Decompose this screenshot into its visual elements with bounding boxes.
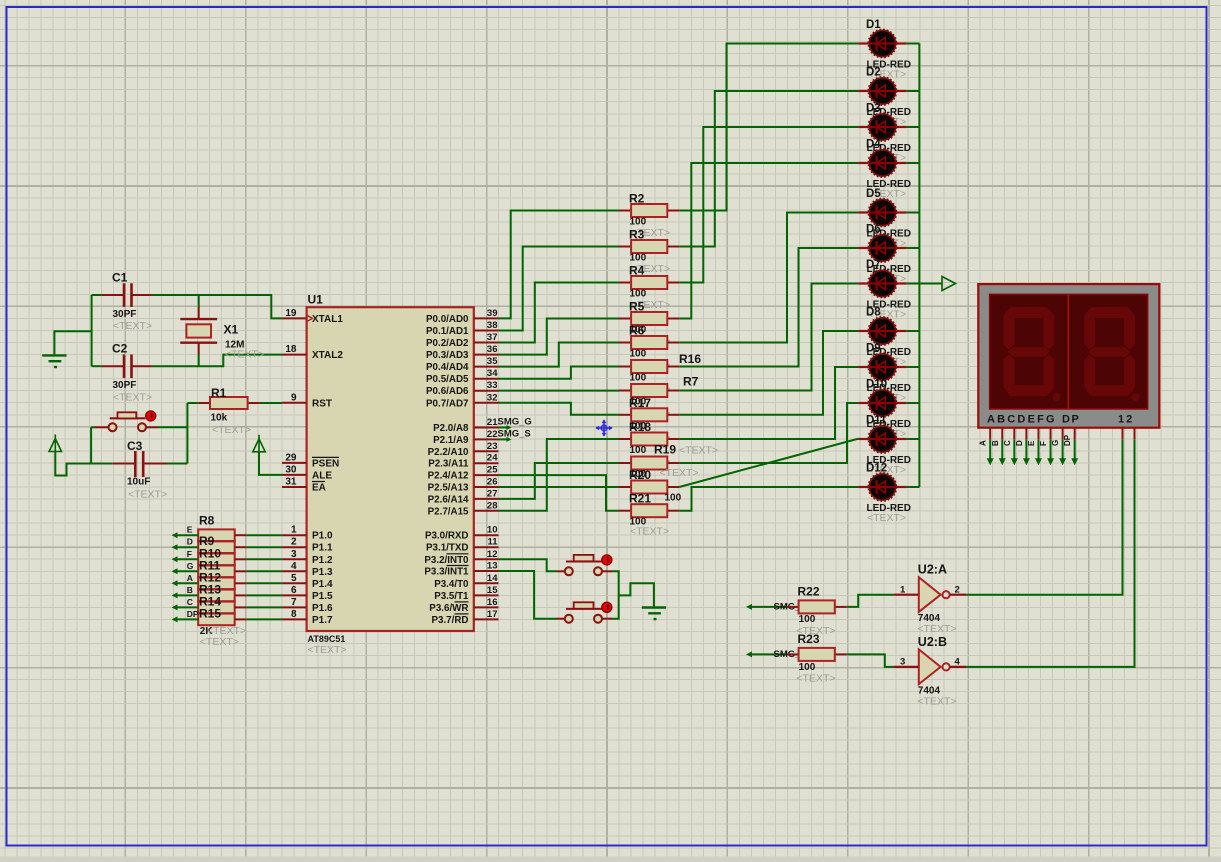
- wire R16 to D6: [679, 248, 858, 367]
- svg-text:DP: DP: [1062, 414, 1080, 426]
- U1 pin 14 P3.4/T0: [474, 582, 499, 584]
- wire P0.7 to R17: [499, 403, 620, 415]
- svg-text:D8: D8: [866, 307, 881, 319]
- svg-text:D12: D12: [866, 463, 887, 475]
- 7-segment pin 1: [1122, 428, 1124, 440]
- terminal arrow SMG_S: [746, 651, 752, 657]
- 7-segment digit 1: [1003, 310, 1014, 349]
- U1 pin 15 P3.5/T1: [474, 594, 499, 596]
- terminal arrow on D7 row: [919, 283, 942, 285]
- svg-text:3: 3: [291, 549, 297, 560]
- svg-text:U1: U1: [308, 293, 324, 307]
- svg-text:3: 3: [900, 657, 905, 668]
- svg-text:2: 2: [291, 537, 297, 548]
- svg-text:R4: R4: [629, 264, 645, 278]
- svg-text:P3.4/T0: P3.4/T0: [434, 579, 469, 590]
- svg-text:P1.6: P1.6: [312, 603, 333, 614]
- wire D8 to bus: [907, 330, 920, 332]
- wire crystal bottom stub: [198, 354, 200, 366]
- svg-text:31: 31: [285, 477, 297, 488]
- U1 pin 32 P0.7/AD7: [474, 402, 499, 404]
- wire P0.0 to R2: [499, 211, 620, 319]
- wire P3.2 to button2a: [499, 559, 558, 571]
- svg-text:<TEXT>: <TEXT>: [917, 696, 956, 708]
- svg-text:6: 6: [291, 585, 297, 596]
- wire U2:B output to display pin 2: [966, 440, 1134, 667]
- svg-text:23: 23: [487, 441, 498, 452]
- wire R14 to P1.6: [235, 606, 247, 608]
- 7-segment pin A: [989, 428, 991, 440]
- svg-text:D: D: [1015, 440, 1024, 446]
- svg-text:DP: DP: [187, 609, 199, 619]
- 7-segment pin E: [1037, 428, 1039, 440]
- svg-text:A: A: [979, 440, 988, 446]
- U1 pin 29 PSEN: [282, 462, 307, 464]
- svg-text:D9: D9: [866, 343, 881, 355]
- wire P0.6 to R7: [499, 390, 620, 392]
- svg-text:100: 100: [630, 289, 647, 300]
- power terminal (left): [54, 435, 56, 452]
- 7-segment pin D: [1025, 428, 1027, 440]
- svg-text:D3: D3: [866, 103, 881, 115]
- wire D2 to bus: [907, 90, 920, 92]
- svg-text:P0.5/AD5: P0.5/AD5: [426, 374, 469, 385]
- svg-text:4: 4: [291, 561, 297, 572]
- U1 pin 13 P3.3/INT1: [474, 570, 499, 572]
- svg-text:R5: R5: [629, 300, 645, 314]
- capacitor C1: [101, 294, 124, 296]
- svg-text:100: 100: [630, 373, 647, 384]
- U1 pin 5 P1.4: [282, 582, 307, 584]
- svg-text:30PF: 30PF: [113, 309, 137, 320]
- svg-text:P2.5/A13: P2.5/A13: [428, 483, 469, 494]
- svg-text:15: 15: [487, 585, 498, 596]
- svg-text:<TEXT>: <TEXT>: [867, 512, 906, 524]
- svg-text:R19: R19: [654, 443, 676, 457]
- svg-text:10: 10: [487, 525, 498, 536]
- svg-text:R6: R6: [629, 324, 645, 338]
- svg-text:29: 29: [285, 452, 297, 463]
- svg-text:SMG_G: SMG_G: [498, 417, 532, 428]
- U1 pin 39 P0.0/AD0: [474, 317, 499, 319]
- svg-text:R22: R22: [798, 585, 820, 599]
- svg-text:R18: R18: [629, 420, 651, 434]
- svg-text:R3: R3: [629, 228, 645, 242]
- svg-text:P2.3/A11: P2.3/A11: [428, 459, 469, 470]
- LED D11: [858, 425, 907, 453]
- U1 pin 31 EA: [282, 486, 307, 488]
- svg-text:100: 100: [630, 349, 647, 360]
- svg-text:P2.6/A14: P2.6/A14: [428, 494, 469, 505]
- 7-segment digit 2: [1084, 310, 1095, 349]
- svg-text:PSEN: PSEN: [312, 458, 339, 469]
- svg-text:P3.6/WR: P3.6/WR: [429, 603, 468, 614]
- svg-text:P3.5/T1: P3.5/T1: [434, 591, 469, 602]
- U1 pin 1 P1.0: [282, 534, 307, 536]
- wire U2:A output to display pin 1: [966, 440, 1122, 595]
- svg-text:34: 34: [487, 368, 498, 379]
- net label SMG_S on pin 22: [499, 438, 509, 440]
- svg-text:F: F: [1039, 441, 1048, 446]
- svg-text:22: 22: [487, 429, 498, 440]
- inverter U2:A 7404: [919, 577, 941, 612]
- LED D4: [858, 149, 907, 177]
- svg-text:12: 12: [1118, 414, 1134, 426]
- wire DP terminal to R15: [172, 616, 178, 622]
- IC U1 AT89C51 body: [307, 307, 474, 631]
- svg-text:C1: C1: [112, 271, 128, 285]
- svg-text:P2.1/A9: P2.1/A9: [433, 435, 469, 446]
- wire power terminal to ALE: [259, 452, 282, 475]
- wire B terminal to R13: [172, 592, 178, 598]
- U1 pin 16 P3.6/WR: [474, 606, 499, 608]
- U1 pin 9 RST: [282, 402, 307, 404]
- resistor R20: [619, 486, 631, 488]
- wire R9 to P1.1: [235, 546, 247, 548]
- 7-segment pin B: [1001, 428, 1003, 440]
- svg-text:<TEXT>: <TEXT>: [113, 320, 152, 332]
- svg-text:D7: D7: [866, 259, 881, 271]
- LED D1: [858, 30, 907, 58]
- U1 pin 4 P1.3: [282, 570, 307, 572]
- wire G terminal to R11: [172, 568, 178, 574]
- svg-text:C: C: [1003, 440, 1012, 446]
- wire P0.2 to R4: [499, 283, 620, 343]
- svg-text:100: 100: [665, 493, 682, 504]
- svg-text:A: A: [187, 573, 193, 583]
- svg-text:C3: C3: [127, 439, 143, 453]
- wire R3 to D2: [679, 91, 858, 247]
- svg-text:P1.2: P1.2: [312, 555, 333, 566]
- svg-text:25: 25: [487, 465, 498, 476]
- svg-text:16: 16: [487, 597, 498, 608]
- svg-text:XTAL1: XTAL1: [312, 314, 343, 325]
- capacitor C3: [113, 463, 136, 465]
- U1 pin 19 XTAL1: [282, 317, 307, 319]
- svg-text:13: 13: [487, 561, 498, 572]
- svg-text:<TEXT>: <TEXT>: [200, 636, 239, 648]
- svg-text:P0.6/AD6: P0.6/AD6: [426, 386, 469, 397]
- wire button1 left: [91, 426, 95, 428]
- resistor R7: [619, 390, 631, 392]
- U1 pin 38 P0.1/AD1: [474, 330, 499, 332]
- svg-text:E: E: [1027, 440, 1036, 446]
- wire P2.5 to R20: [499, 486, 620, 488]
- net label SMG_G on pin 21: [499, 427, 509, 429]
- wire R23 to U2:B input: [847, 654, 894, 667]
- svg-text:DP: DP: [1063, 434, 1072, 446]
- wire R17 to D8: [679, 331, 858, 415]
- wire R8 to P1.0: [235, 534, 247, 536]
- bottom window band: [0, 857, 1221, 862]
- LED D8: [858, 317, 907, 345]
- svg-text:<TEXT>: <TEXT>: [917, 623, 956, 635]
- U1 pin 7 P1.6: [282, 606, 307, 608]
- wire D7 to bus: [907, 283, 920, 285]
- svg-text:<TEXT>: <TEXT>: [225, 349, 264, 361]
- svg-text:<TEXT>: <TEXT>: [128, 489, 167, 501]
- svg-text:R15: R15: [199, 606, 221, 620]
- svg-text:39: 39: [487, 308, 498, 319]
- svg-text:P3.3/INT1: P3.3/INT1: [424, 567, 469, 578]
- resistor R4: [619, 282, 631, 284]
- svg-text:ABCDEFG: ABCDEFG: [987, 414, 1057, 426]
- resistor R16: [619, 366, 631, 368]
- 7-segment digit 2 decimal point: [1131, 393, 1139, 401]
- svg-text:D: D: [187, 537, 193, 547]
- svg-text:<TEXT>: <TEXT>: [660, 467, 699, 479]
- svg-text:21: 21: [487, 417, 498, 428]
- svg-text:<TEXT>: <TEXT>: [630, 526, 669, 538]
- inverter U2:B 7404: [919, 649, 941, 684]
- 7-segment digit 1 decimal point: [1052, 393, 1060, 401]
- wire R1 to RST pin: [260, 402, 282, 404]
- svg-text:X1: X1: [224, 323, 239, 337]
- U1 pin 26 P2.5/A13: [474, 486, 499, 488]
- wire D3 to bus: [907, 126, 920, 128]
- wire R10 to P1.2: [235, 558, 247, 560]
- svg-text:P1.5: P1.5: [312, 591, 333, 602]
- svg-text:100: 100: [799, 614, 816, 625]
- terminal arrow SMG_G: [746, 604, 752, 610]
- resistor R1: [199, 402, 210, 404]
- wire D12 to bus: [907, 486, 920, 488]
- svg-text:P3.0/RXD: P3.0/RXD: [425, 531, 469, 542]
- svg-text:G: G: [1051, 440, 1060, 446]
- svg-text:<TEXT>: <TEXT>: [113, 392, 152, 404]
- svg-text:R17: R17: [629, 396, 651, 410]
- svg-text:1: 1: [900, 585, 906, 596]
- svg-text:P2.2/A10: P2.2/A10: [428, 447, 469, 458]
- resistor R18: [619, 438, 631, 440]
- resistor R13 (network): [198, 590, 235, 602]
- resistor R12 (network): [198, 578, 235, 590]
- wire P0.4 to R6: [499, 343, 620, 367]
- wire P0.5 to R16: [499, 367, 620, 379]
- wire P2.7 to R18: [499, 439, 620, 511]
- wire D5 to bus: [907, 212, 920, 214]
- svg-text:D5: D5: [866, 188, 881, 200]
- LED D12: [858, 473, 907, 501]
- svg-text:P3.2/INT0: P3.2/INT0: [424, 555, 469, 566]
- svg-text:18: 18: [285, 344, 297, 355]
- svg-text:XTAL2: XTAL2: [312, 350, 343, 361]
- resistor R6: [619, 342, 631, 344]
- svg-text:10uF: 10uF: [127, 477, 150, 488]
- wire crystal top stub: [198, 295, 200, 307]
- svg-text:11: 11: [487, 537, 498, 548]
- svg-text:B: B: [991, 440, 1000, 446]
- U1 pin 36 P0.3/AD3: [474, 354, 499, 356]
- svg-text:R8: R8: [199, 514, 215, 528]
- svg-text:C2: C2: [112, 342, 128, 356]
- svg-text:SMG_S: SMG_S: [498, 429, 531, 440]
- 7-segment display panel: [990, 294, 1148, 409]
- wire R6 to D5: [679, 213, 858, 343]
- svg-text:P2.7/A15: P2.7/A15: [428, 506, 469, 517]
- 7-segment digit divider: [1067, 294, 1069, 409]
- LED D7: [858, 270, 907, 298]
- wire P3.3 to button2b: [499, 571, 558, 619]
- svg-text:30: 30: [285, 464, 297, 475]
- svg-text:19: 19: [285, 308, 297, 319]
- resistor R5: [619, 318, 631, 320]
- 7-segment display body: [978, 284, 1159, 428]
- pushbutton (reset): [96, 426, 109, 428]
- capacitor C2: [101, 365, 124, 367]
- svg-text:EA: EA: [312, 483, 326, 494]
- 7-segment pin 2: [1134, 428, 1136, 440]
- svg-text:17: 17: [487, 609, 498, 620]
- wire D4 to bus: [907, 162, 920, 164]
- wire R11 to P1.3: [235, 570, 247, 572]
- svg-text:27: 27: [487, 488, 498, 499]
- svg-text:P1.0: P1.0: [312, 531, 333, 542]
- wire R1 left vertical: [187, 402, 198, 404]
- svg-text:P0.2/AD2: P0.2/AD2: [426, 338, 469, 349]
- wire E terminal to R8: [172, 532, 178, 538]
- LED D10: [858, 389, 907, 417]
- U1 pin 22 P2.1/A9: [474, 438, 499, 440]
- wire R19 to D10: [679, 403, 858, 463]
- svg-text:37: 37: [487, 332, 498, 343]
- svg-text:8: 8: [291, 609, 297, 620]
- ground (buttons): [642, 606, 666, 608]
- svg-text:4: 4: [955, 657, 961, 668]
- svg-text:D10: D10: [866, 379, 887, 391]
- svg-text:<TEXT>: <TEXT>: [308, 644, 347, 656]
- svg-text:D2: D2: [866, 67, 881, 79]
- svg-text:<TEXT>: <TEXT>: [679, 445, 718, 457]
- resistor R17: [619, 414, 631, 416]
- svg-text:10k: 10k: [211, 413, 228, 424]
- svg-text:5: 5: [291, 573, 297, 584]
- resistor R23: [787, 653, 799, 655]
- svg-text:E: E: [187, 525, 193, 535]
- svg-text:32: 32: [487, 392, 498, 403]
- svg-text:D11: D11: [866, 415, 887, 427]
- svg-text:D4: D4: [866, 139, 881, 151]
- svg-text:C: C: [187, 597, 193, 607]
- wire R5 to D4: [679, 163, 858, 319]
- U1 pin 2 P1.1: [282, 546, 307, 548]
- svg-text:R23: R23: [798, 632, 820, 646]
- svg-text:P3.7/RD: P3.7/RD: [431, 615, 468, 626]
- svg-text:P0.4/AD4: P0.4/AD4: [426, 362, 469, 373]
- U1 pin 33 P0.6/AD6: [474, 390, 499, 392]
- wire R15 to P1.7: [235, 618, 247, 620]
- U1 pin 23 P2.2/A10: [474, 450, 499, 452]
- wire F terminal to R10: [172, 556, 178, 562]
- resistor R22: [787, 606, 799, 608]
- U1 pin 6 P1.5: [282, 594, 307, 596]
- svg-text:P1.4: P1.4: [312, 579, 333, 590]
- U1 pin 37 P0.2/AD2: [474, 342, 499, 344]
- resistor R3: [619, 246, 631, 248]
- svg-text:100: 100: [630, 445, 647, 456]
- svg-text:P0.3/AD3: P0.3/AD3: [426, 350, 469, 361]
- svg-text:B: B: [187, 585, 193, 595]
- wire R7 to D7: [679, 284, 858, 391]
- U1 pin 28 P2.7/A15: [474, 510, 499, 512]
- resistor R2: [619, 210, 631, 212]
- wire C3 right: [167, 463, 188, 465]
- svg-text:AT89C51: AT89C51: [308, 634, 346, 644]
- svg-text:36: 36: [487, 344, 498, 355]
- wire D11 to bus: [907, 438, 920, 440]
- U1 pin 3 P1.2: [282, 558, 307, 560]
- svg-text:RST: RST: [312, 398, 332, 409]
- wire P2.6 to R19: [499, 463, 620, 499]
- wire C2 bottom rail to XTAL2: [92, 365, 102, 367]
- U1 pin 8 P1.7: [282, 618, 307, 620]
- svg-text:R1: R1: [211, 386, 227, 400]
- wire left vertical C1-C2: [91, 295, 93, 366]
- pushbutton (P3.2): [557, 570, 564, 572]
- svg-text:<TEXT>: <TEXT>: [212, 424, 251, 436]
- svg-text:9: 9: [291, 392, 297, 403]
- resistor R21: [619, 510, 631, 512]
- U1 pin 11 P3.1/TXD: [474, 546, 499, 548]
- pushbutton (P3.3): [557, 618, 564, 620]
- svg-text:28: 28: [487, 500, 498, 511]
- svg-text:30PF: 30PF: [113, 380, 137, 391]
- wire D9 to bus: [907, 366, 920, 368]
- wire P0.3 to R5: [499, 319, 620, 355]
- 7-segment pin G: [1062, 428, 1064, 440]
- wire D6 to bus: [907, 247, 920, 249]
- 7-segment pin DP: [1074, 428, 1076, 440]
- wire R20 to D11 (diagonal): [679, 439, 858, 487]
- svg-text:<TEXT>: <TEXT>: [796, 673, 835, 685]
- svg-text:R21: R21: [629, 492, 651, 506]
- svg-text:R20: R20: [629, 468, 651, 482]
- svg-text:ALE: ALE: [312, 470, 332, 481]
- wire A terminal to R12: [172, 580, 178, 586]
- svg-text:G: G: [187, 561, 194, 571]
- svg-text:38: 38: [487, 320, 498, 331]
- LED D2: [858, 77, 907, 105]
- svg-text:24: 24: [487, 453, 498, 464]
- resistor R8 (network): [198, 529, 235, 541]
- svg-text:1: 1: [291, 525, 297, 536]
- LED D3: [858, 113, 907, 141]
- origin marker (blue crosshair): [596, 420, 612, 436]
- U1 pin 12 P3.2/INT0: [474, 558, 499, 560]
- wire C terminal to R14: [172, 604, 178, 610]
- wire R18 to D9: [679, 367, 858, 439]
- wire button1 right: [158, 426, 188, 428]
- ground: [42, 354, 66, 356]
- svg-text:R2: R2: [629, 192, 645, 206]
- LED D5: [858, 199, 907, 227]
- wire R22 to U2:A input: [847, 595, 894, 607]
- U1 XTAL1 clock mark: [307, 315, 313, 321]
- svg-text:P0.0/AD0: P0.0/AD0: [426, 314, 469, 325]
- wire D10 to bus: [907, 402, 920, 404]
- 7-segment pin F: [1050, 428, 1052, 440]
- svg-text:P1.7: P1.7: [312, 615, 333, 626]
- U1 pin 21 P2.0/A8: [474, 427, 499, 429]
- svg-text:D6: D6: [866, 224, 881, 236]
- U1 pin 10 P3.0/RXD: [474, 534, 499, 536]
- svg-text:P0.7/AD7: P0.7/AD7: [426, 398, 469, 409]
- crystal X1: [198, 307, 200, 319]
- resistor R15 (network): [198, 614, 235, 626]
- svg-text:D1: D1: [866, 19, 881, 31]
- U1 pin 34 P0.5/AD5: [474, 378, 499, 380]
- svg-text:U2:B: U2:B: [918, 635, 947, 649]
